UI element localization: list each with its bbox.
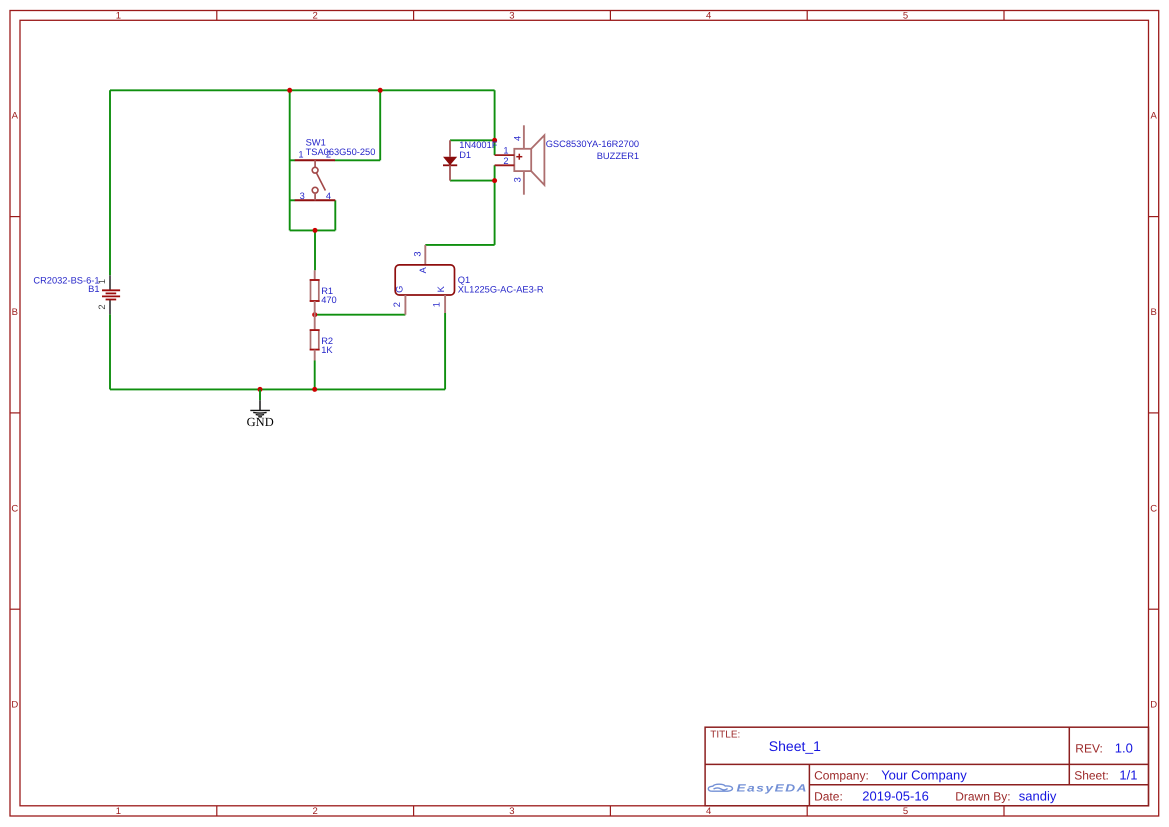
wire stub to SW1 pin 3 — [290, 199, 296, 201]
resistor R1 pin top — [314, 270, 316, 280]
svg-text:5: 5 — [903, 806, 908, 817]
buzzer BUZZER1 pin 1 lead — [495, 154, 515, 156]
resistor R2 pin bottom — [314, 350, 316, 361]
switch SW1 top bar — [295, 159, 335, 161]
svg-text:3: 3 — [512, 177, 522, 182]
svg-text:TITLE:: TITLE: — [710, 730, 740, 741]
diode D1 cathode bar — [443, 164, 457, 166]
wire buzzer to Q1 pin 3 horizontal — [425, 244, 494, 246]
svg-text:1N4001F: 1N4001F — [459, 140, 498, 150]
svg-text:D: D — [1150, 700, 1157, 711]
junction dot below switch — [313, 228, 318, 233]
frame column ticks bottom — [217, 806, 1004, 816]
svg-text:1/1: 1/1 — [1119, 767, 1137, 782]
svg-text:1.0: 1.0 — [1115, 740, 1133, 755]
svg-text:Company:: Company: — [814, 768, 869, 782]
svg-text:4: 4 — [512, 136, 522, 141]
svg-text:GND: GND — [247, 415, 274, 429]
svg-text:2: 2 — [313, 806, 318, 817]
transistor Q1 body — [395, 265, 454, 295]
frame row ticks right — [1149, 217, 1159, 610]
svg-text:Drawn By:: Drawn By: — [955, 790, 1010, 804]
switch SW1 common stub bottom — [314, 193, 316, 200]
transistor Q1 pin 2 lead — [404, 295, 406, 315]
battery B1 pin 2 lead — [109, 300, 111, 315]
wire left upper (battery to top rail) — [109, 90, 111, 275]
svg-text:EasyEDA: EasyEDA — [736, 783, 808, 795]
svg-text:3: 3 — [412, 251, 422, 256]
svg-text:4: 4 — [706, 11, 711, 22]
wire stub to SW1 pin 1 — [290, 159, 296, 161]
diode D1 pin bottom — [449, 165, 451, 180]
switch SW1 contact circle bottom — [312, 187, 318, 193]
svg-text:C: C — [11, 503, 18, 514]
wire buzzer branch upper vertical — [494, 90, 496, 155]
junction dot R1/R2 node — [312, 312, 317, 317]
svg-text:Your Company: Your Company — [881, 767, 967, 782]
junction dot diode top — [492, 138, 497, 143]
svg-text:B: B — [1151, 307, 1157, 318]
svg-text:470: 470 — [321, 295, 337, 305]
battery B1 pin 1 lead — [109, 275, 111, 290]
svg-text:2019-05-16: 2019-05-16 — [862, 789, 929, 804]
svg-text:A: A — [1151, 111, 1158, 122]
resistor R2 body — [311, 330, 319, 350]
switch SW1 contact circle top — [312, 167, 318, 173]
buzzer BUZZER1 plus sign — [516, 154, 522, 160]
svg-text:B: B — [12, 307, 18, 318]
svg-text:Date:: Date: — [814, 790, 843, 804]
wire R2 to bottom rail — [314, 361, 316, 390]
svg-text:1: 1 — [503, 146, 508, 156]
wire switch right vertical — [379, 90, 381, 160]
svg-text:Sheet:: Sheet: — [1074, 768, 1109, 782]
wire diode bottom horizontal — [450, 180, 495, 182]
wire buzzer branch lower vertical — [494, 165, 496, 245]
frame column numbers top — [116, 11, 908, 22]
svg-text:3: 3 — [509, 806, 514, 817]
wire switch left vertical — [289, 90, 291, 230]
transistor Q1 pin 3 lead — [424, 245, 426, 265]
svg-text:3: 3 — [509, 11, 514, 22]
wire below switch horizontal — [290, 229, 336, 231]
wire bottom rail — [110, 388, 445, 390]
buzzer BUZZER1 body — [514, 149, 531, 171]
frame column numbers bottom — [116, 806, 908, 817]
transistor Q1 pin 1 lead — [444, 295, 446, 313]
wire Q1 pin 1 to bottom rail — [444, 313, 446, 389]
switch SW1 lever — [317, 173, 326, 190]
svg-text:B1: B1 — [88, 284, 99, 294]
svg-text:2: 2 — [392, 302, 402, 307]
frame row letters right — [1150, 111, 1157, 711]
svg-text:2: 2 — [97, 304, 107, 309]
svg-text:XL1225G-AC-AE3-R: XL1225G-AC-AE3-R — [458, 284, 544, 294]
svg-text:2: 2 — [503, 156, 508, 166]
frame row letters left — [11, 111, 18, 711]
junction dot top rail right — [378, 88, 383, 93]
switch SW1 bottom bar — [295, 199, 336, 201]
svg-text:G: G — [395, 286, 405, 293]
svg-text:2: 2 — [313, 11, 318, 22]
svg-text:REV:: REV: — [1075, 741, 1103, 755]
svg-text:3: 3 — [300, 191, 305, 201]
EasyEDA logo cloud icon — [708, 784, 732, 791]
wire R1/R2 node to Q1 pin 2 — [315, 314, 406, 316]
svg-text:A: A — [12, 111, 19, 122]
wire SW1 pin 4 drop — [334, 200, 336, 230]
svg-text:1: 1 — [116, 806, 121, 817]
junction dot top rail left — [287, 88, 292, 93]
wire left lower (battery to bottom rail) — [109, 314, 111, 389]
diode D1 triangle — [443, 157, 457, 166]
svg-text:1K: 1K — [321, 345, 333, 355]
svg-text:BUZZER1: BUZZER1 — [597, 151, 639, 161]
wire stub to SW1 pin 2 — [335, 159, 381, 161]
buzzer BUZZER1 pin 2 lead — [495, 164, 515, 166]
svg-text:1: 1 — [298, 150, 303, 160]
junction dot diode bottom — [492, 178, 497, 183]
buzzer BUZZER1 pin 4 lead — [523, 125, 525, 149]
resistor R1 pin bottom — [314, 301, 316, 315]
svg-text:GSC8530YA-16R2700: GSC8530YA-16R2700 — [546, 139, 639, 149]
svg-text:Sheet_1: Sheet_1 — [769, 738, 821, 754]
switch SW1 common stub top — [314, 160, 316, 167]
buzzer BUZZER1 pin 3 lead — [523, 171, 525, 195]
junction dot R2 bottom rail — [312, 387, 317, 392]
buzzer BUZZER1 horn — [531, 135, 544, 185]
wire switch to R1 — [314, 230, 316, 270]
svg-text:C: C — [1150, 503, 1157, 514]
wire diode top horizontal — [450, 139, 495, 141]
svg-text:TSA063G50-250: TSA063G50-250 — [306, 147, 376, 157]
ground symbol — [259, 389, 261, 400]
resistor R1 body — [311, 280, 319, 301]
svg-text:4: 4 — [706, 806, 711, 817]
svg-text:D: D — [11, 700, 18, 711]
battery B1 plates — [102, 290, 120, 299]
svg-text:sandiy: sandiy — [1019, 789, 1057, 804]
svg-text:1: 1 — [116, 11, 121, 22]
svg-text:4: 4 — [326, 191, 331, 201]
svg-text:K: K — [436, 285, 446, 292]
title block outline — [705, 727, 1148, 806]
junction dot GND — [258, 387, 263, 392]
wire top rail — [110, 89, 495, 91]
frame row ticks left — [10, 217, 20, 610]
svg-text:D1: D1 — [459, 150, 471, 160]
resistor R2 pin top — [314, 315, 316, 330]
svg-text:5: 5 — [903, 11, 908, 22]
svg-text:1: 1 — [431, 302, 441, 307]
diode D1 pin top — [449, 140, 451, 156]
svg-text:A: A — [418, 266, 428, 273]
frame column ticks top — [217, 11, 1004, 21]
